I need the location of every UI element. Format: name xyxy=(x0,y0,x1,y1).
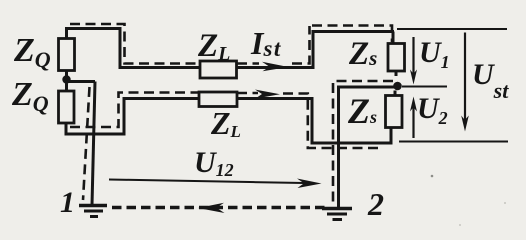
svg-text:2: 2 xyxy=(367,186,384,222)
svg-text:ZQ: ZQ xyxy=(11,76,49,116)
svg-text:U2: U2 xyxy=(417,92,448,128)
svg-text:U1: U1 xyxy=(419,36,450,72)
svg-text:Ist: Ist xyxy=(250,25,282,61)
svg-text:Zs: Zs xyxy=(348,36,377,72)
svg-text:ZL: ZL xyxy=(210,105,241,141)
svg-text:1: 1 xyxy=(60,186,75,219)
svg-text:Ust: Ust xyxy=(472,58,509,103)
svg-text:Zs: Zs xyxy=(347,91,377,131)
svg-text:ZL: ZL xyxy=(197,28,230,65)
svg-text:U12: U12 xyxy=(194,146,234,180)
svg-text:ZQ: ZQ xyxy=(13,32,51,72)
